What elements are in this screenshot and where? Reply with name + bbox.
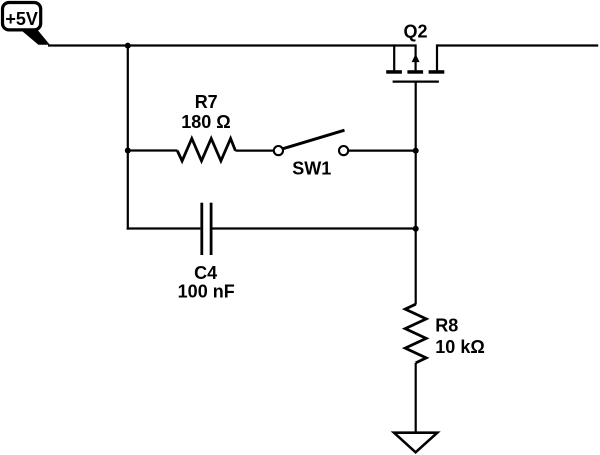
switch SW1 left contact bbox=[274, 146, 283, 155]
wire: left vertical branch bbox=[127, 46, 129, 230]
capacitor C4 left plate bbox=[200, 203, 203, 255]
power flag +5V tail bbox=[19, 28, 50, 45]
Q2 gate plate bbox=[393, 80, 439, 82]
wire: R7 row, node to resistor bbox=[128, 149, 178, 151]
svg-text:180 Ω: 180 Ω bbox=[181, 112, 230, 132]
capacitor C4 right plate bbox=[210, 203, 213, 255]
wire: capacitor row, left branch to C4 bbox=[127, 227, 201, 229]
svg-text:SW1: SW1 bbox=[292, 158, 331, 178]
resistor R7 bbox=[177, 139, 235, 161]
Q2 body arrow bbox=[412, 54, 420, 62]
Q2 channel bar left bbox=[386, 70, 402, 74]
node junction: R7 row / right branch bbox=[413, 148, 419, 154]
resistor R8 bbox=[405, 304, 426, 363]
Q2 body stub with arrow (middle) bbox=[415, 44, 417, 70]
wire: capacitor row, C4 to right branch bbox=[213, 227, 417, 229]
wire: top rail from +5V to Q2 source corner bbox=[48, 44, 416, 46]
Q2 drain stub (right) bbox=[436, 44, 438, 70]
power flag +5V box bbox=[3, 3, 41, 30]
wire: right vertical branch (Q2 gate down to R8) bbox=[415, 82, 417, 305]
Q2 channel bar right bbox=[429, 70, 445, 74]
power flag +5V bbox=[3, 3, 50, 45]
svg-text:Q2: Q2 bbox=[403, 21, 427, 41]
wire: R7 to SW1 bbox=[235, 150, 274, 152]
switch SW1 right contact bbox=[339, 146, 348, 155]
wire: SW1 to right vertical branch bbox=[348, 150, 417, 152]
svg-text:10 kΩ: 10 kΩ bbox=[435, 337, 484, 357]
switch SW1 lever bbox=[283, 130, 345, 149]
svg-text:100 nF: 100 nF bbox=[178, 282, 235, 302]
svg-text:C4: C4 bbox=[194, 263, 217, 283]
node junction: left branch / R7 row bbox=[125, 148, 131, 154]
Q2 source stub (left) bbox=[393, 44, 395, 70]
wire: top rail right of Q2 bbox=[437, 44, 598, 46]
ground symbol bbox=[394, 433, 437, 453]
Q2 channel bar middle bbox=[407, 70, 423, 74]
node junction: top rail / left branch bbox=[125, 43, 131, 49]
svg-text:R7: R7 bbox=[195, 92, 218, 112]
wire: R8 to ground bbox=[415, 363, 417, 433]
node junction: capacitor row / right branch bbox=[413, 226, 419, 232]
svg-text:R8: R8 bbox=[435, 315, 458, 335]
svg-text:+5V: +5V bbox=[5, 9, 38, 29]
transistor Q2 (PMOS) bbox=[386, 21, 444, 81]
